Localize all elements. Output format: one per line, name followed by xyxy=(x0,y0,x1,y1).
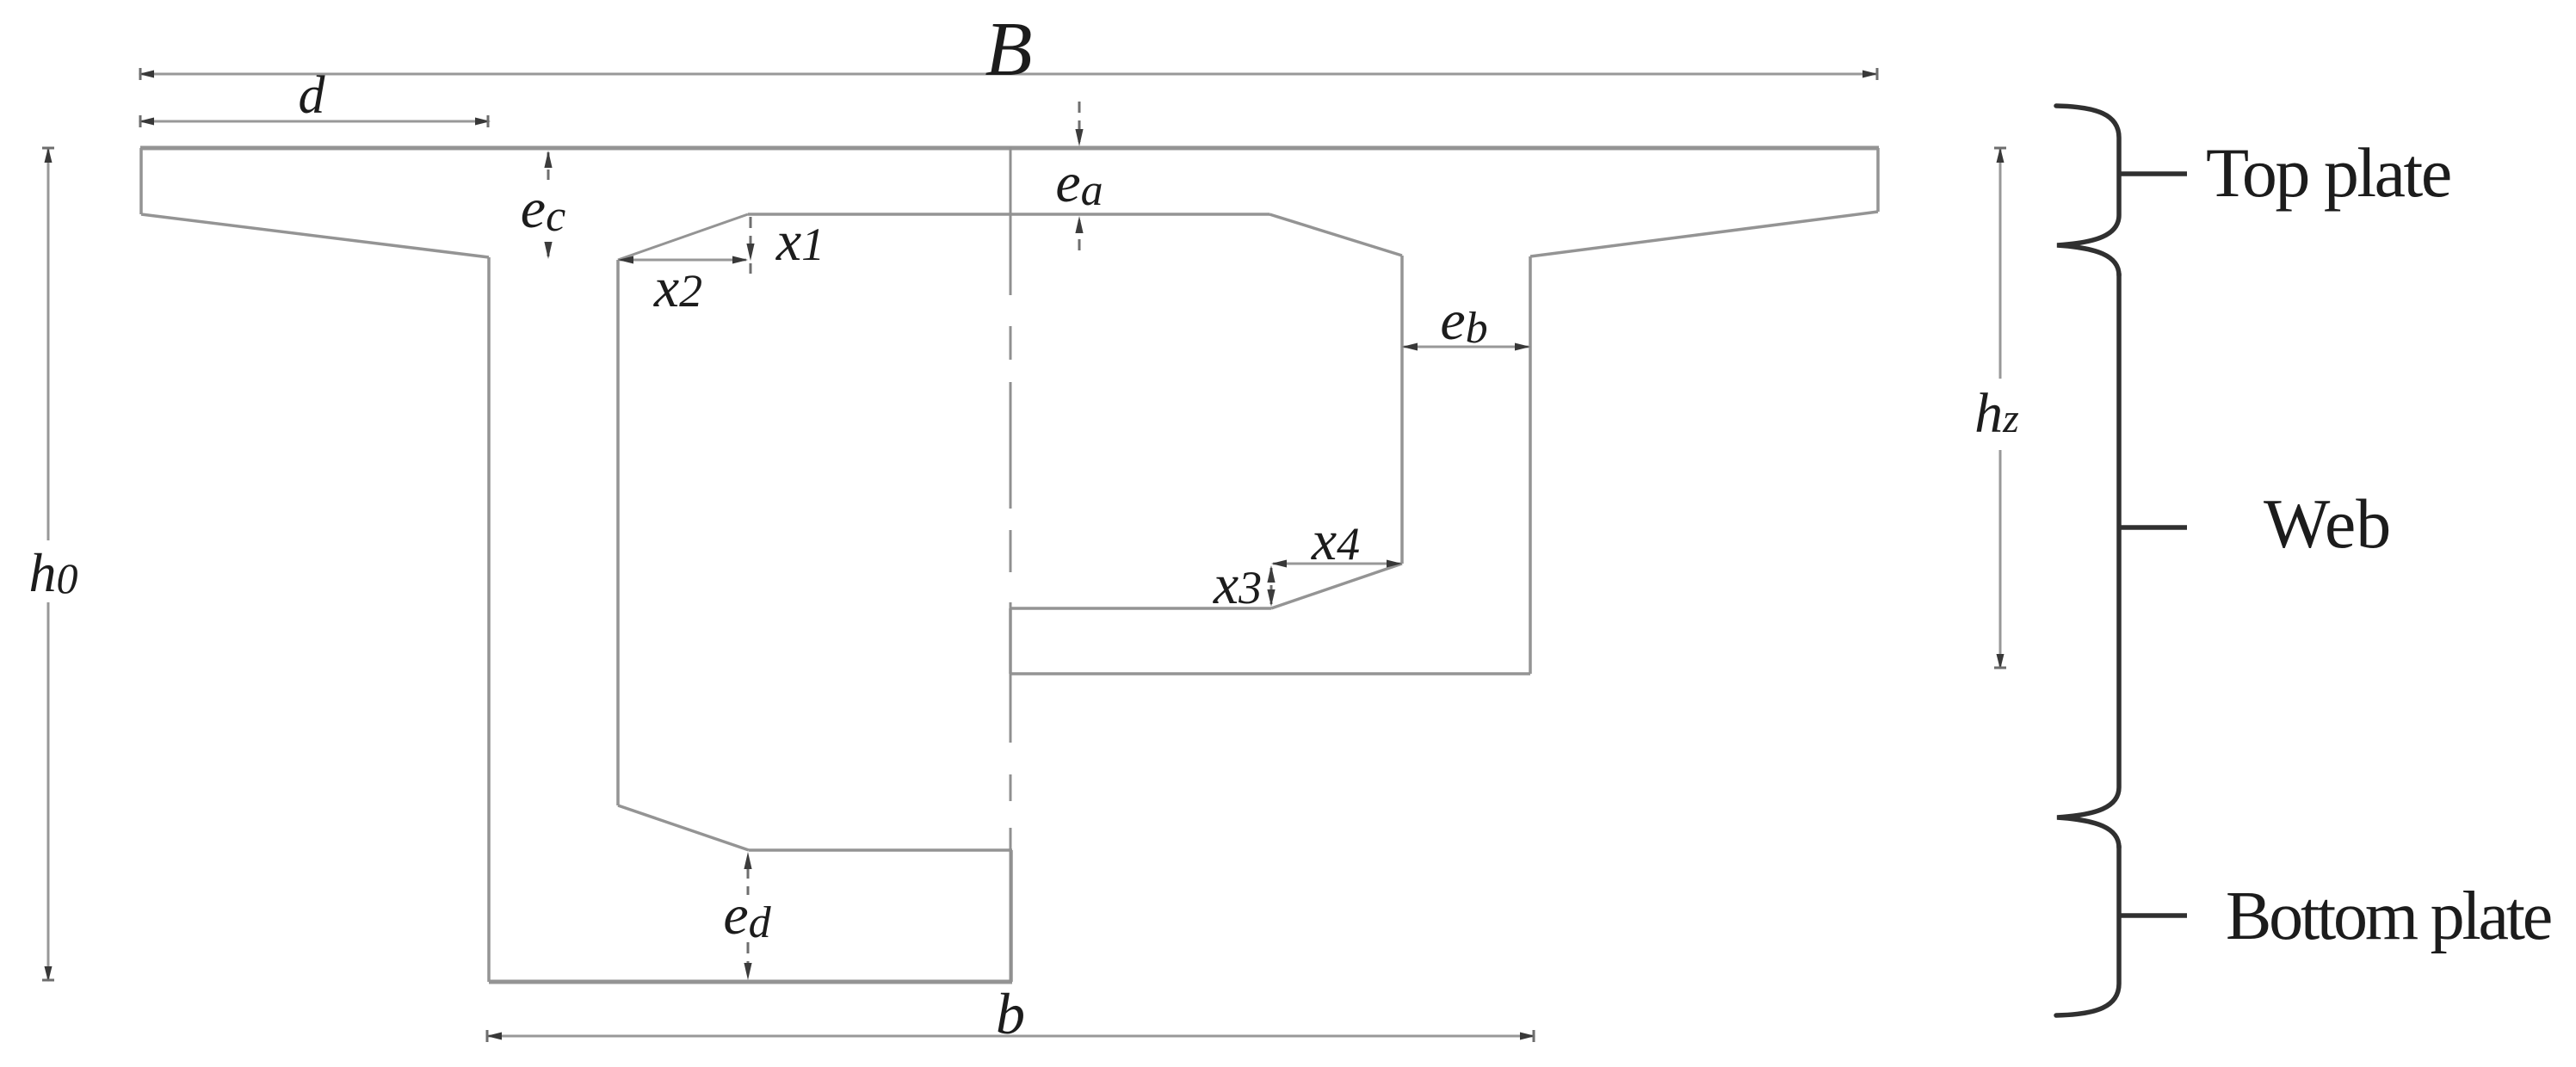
svg-text:eb: eb xyxy=(1440,289,1487,353)
dimension x3 dashed with arrows xyxy=(1270,568,1273,604)
girder top plate right end edge xyxy=(1876,148,1880,212)
svg-text:h0: h0 xyxy=(29,542,78,603)
dimension ec dashed arrows xyxy=(547,152,550,258)
svg-text:Web: Web xyxy=(2264,484,2391,563)
girder top plate right underside slant xyxy=(1530,212,1878,256)
svg-text:Bottom plate: Bottom plate xyxy=(2226,879,2551,954)
inner cavity top-right chamfer xyxy=(1269,214,1402,256)
brace pointer top plate xyxy=(2119,171,2187,176)
inner cavity bottom edge right half xyxy=(1010,607,1271,610)
curly brace web xyxy=(2057,274,2119,848)
svg-text:x4: x4 xyxy=(1311,509,1360,572)
svg-text:x3: x3 xyxy=(1213,553,1262,616)
dimension line h0 xyxy=(47,149,50,540)
dimension line hz xyxy=(1999,149,2002,379)
dimension line B xyxy=(140,73,1876,76)
svg-text:ea: ea xyxy=(1055,151,1103,215)
dimension line x2 xyxy=(620,259,746,262)
inner cavity bottom-left chamfer xyxy=(618,805,749,850)
inner cavity left edge xyxy=(616,260,620,805)
svg-text:B: B xyxy=(985,7,1033,92)
girder top plate top edge xyxy=(140,146,1879,151)
girder right web outer edge xyxy=(1529,256,1532,674)
dimension line b xyxy=(488,1035,1534,1038)
dimension line eb xyxy=(1404,346,1529,348)
svg-text:x1: x1 xyxy=(775,210,825,273)
brace pointer web xyxy=(2119,525,2187,530)
svg-text:b: b xyxy=(996,981,1025,1046)
dimension line x4 xyxy=(1273,563,1400,565)
inner cavity top edge xyxy=(748,213,1269,216)
svg-text:ec: ec xyxy=(521,177,565,241)
dimension ed dashed arrows xyxy=(747,867,750,974)
brace pointer bottom plate xyxy=(2119,913,2187,918)
inner cavity right edge xyxy=(1400,256,1404,564)
svg-text:Top plate: Top plate xyxy=(2206,133,2450,212)
svg-text:ed: ed xyxy=(723,884,771,947)
inner cavity closing edge at centerline left half xyxy=(1010,850,1013,982)
curly brace top plate xyxy=(2056,106,2119,275)
dimension end ticks xyxy=(42,68,2006,1042)
svg-text:hz: hz xyxy=(1974,382,2019,445)
girder right-half bottom edge xyxy=(1010,672,1530,675)
curly brace bottom plate xyxy=(2056,846,2119,1015)
girder bottom plate bottom edge xyxy=(489,980,1012,984)
inner cavity bottom-right chamfer xyxy=(1271,564,1402,608)
dimension ea dashed arrows xyxy=(1078,102,1081,254)
girder left web outer edge xyxy=(487,257,491,982)
girder top plate left underside slant xyxy=(141,214,489,257)
svg-text:x2: x2 xyxy=(653,256,702,319)
inner cavity step at centerline right half xyxy=(1009,608,1012,674)
inner cavity top-left chamfer xyxy=(618,214,748,260)
centerline axis of symmetry xyxy=(1010,147,1012,982)
svg-text:d: d xyxy=(299,66,326,125)
dimension line d xyxy=(140,120,489,123)
inner cavity bottom edge left half xyxy=(749,848,1012,852)
girder top plate left end edge xyxy=(139,148,143,214)
dimension x1 dashed extension with arrow xyxy=(750,217,752,274)
